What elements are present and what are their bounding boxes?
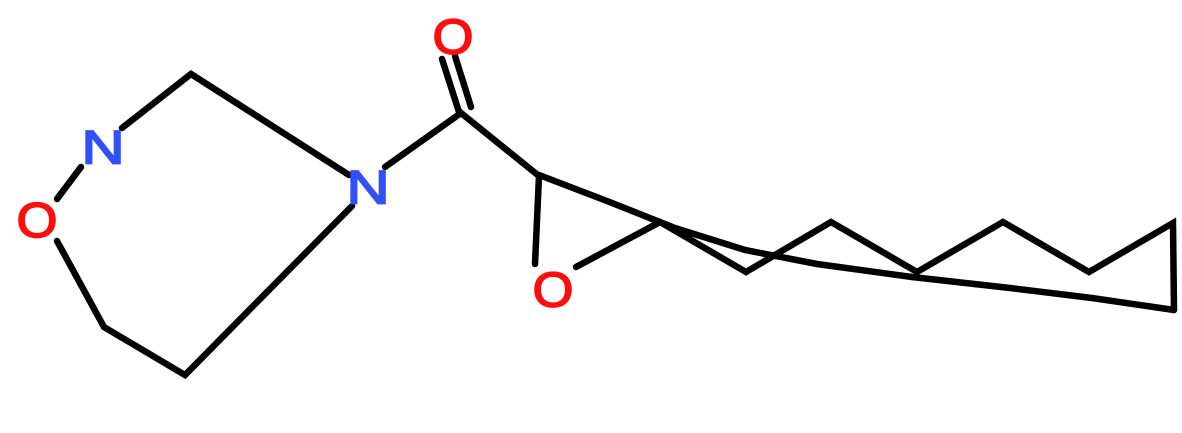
svg-text:O: O [533,262,574,317]
bonds N1-C3-C4-N2 left ring upper run [122,74,349,175]
svg-text:N: N [81,122,124,174]
svg-text:O: O [17,193,58,248]
macrocycle top run C2..tip [539,175,1174,310]
svg-text:O: O [433,9,474,64]
bond O3-P1 and macrocycle bottom zigzag and right closing edge [576,222,1174,310]
svg-text:N: N [346,162,389,214]
double bond C1=O2 line a [442,59,459,112]
bonds O1-C8-C7-C6-N2 left ring lower run [57,206,352,375]
bonds N2-C1-C2-O3 amide and alpha carbon [385,113,539,264]
bond N1-O1 [57,167,81,199]
double bond C1=O2 line b [455,56,471,107]
